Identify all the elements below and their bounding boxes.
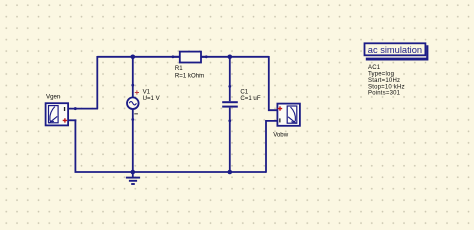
ground <box>126 172 140 184</box>
label R=1 kOhm <box>175 72 204 79</box>
wire V1 upper lead <box>132 57 134 98</box>
wire left-bottom vertical <box>74 119 76 172</box>
label C=1 uF <box>240 95 260 102</box>
label Points=301 <box>368 91 401 97</box>
node junction at C1 bottom <box>228 170 233 175</box>
wire right vertical (to Vobw plus) <box>269 56 278 110</box>
pin dot R1 right <box>205 55 208 58</box>
svg-text:R=1 kOhm: R=1 kOhm <box>175 72 204 79</box>
voltmeter Vgen body <box>46 103 69 125</box>
pin dot R1 left <box>172 55 175 58</box>
label ac simulation <box>368 45 422 55</box>
svg-text:U=1 V: U=1 V <box>143 95 161 102</box>
wire Vgen plus terminal horizontal <box>68 108 98 110</box>
label C1 <box>240 89 248 96</box>
svg-text:R1: R1 <box>175 65 183 72</box>
ac simulation block <box>365 43 429 60</box>
voltmeter Vobw body <box>277 104 300 126</box>
V1 minus mark <box>134 113 138 114</box>
label Start=10Hz <box>368 78 400 84</box>
resistor R1 <box>173 52 206 63</box>
svg-text:Type=log: Type=log <box>368 72 394 78</box>
wire C1 lower lead <box>229 108 231 172</box>
pin dot V1 top <box>131 84 134 87</box>
pin dot Vgen plus wire <box>74 107 77 110</box>
wire Vgen minus terminal horizontal <box>68 119 76 121</box>
svg-text:Points=301: Points=301 <box>368 91 401 97</box>
node junction at V1 top <box>131 55 136 60</box>
voltmeter Vgen plus mark <box>63 118 67 122</box>
svg-text:Start=10Hz: Start=10Hz <box>368 78 400 84</box>
pin dot C1 top <box>228 85 231 88</box>
pin dot C1 bottom <box>228 119 231 122</box>
pin dot V1 bottom <box>131 118 134 121</box>
voltmeter Vgen minus mark <box>64 107 65 111</box>
V1 plus mark <box>135 90 139 94</box>
wire Vobw minus to ground rail <box>266 121 277 173</box>
capacitor C1 <box>222 101 238 107</box>
wire top-left horizontal (node in to R1) <box>97 56 179 58</box>
wire V1 lower lead <box>132 109 134 172</box>
svg-text:Vobw: Vobw <box>273 132 289 139</box>
svg-text:C=1 uF: C=1 uF <box>240 95 260 102</box>
ac voltage source V1 <box>127 97 139 109</box>
svg-text:Stop=10 kHz: Stop=10 kHz <box>368 84 405 90</box>
wire left vertical <box>96 56 98 109</box>
svg-text:Vgen: Vgen <box>46 93 60 100</box>
label AC1 <box>368 65 381 71</box>
label Stop=10 kHz <box>368 84 405 90</box>
wire C1 upper lead <box>229 57 231 101</box>
label U=1 V <box>143 95 161 102</box>
node junction at C1 top <box>228 55 233 60</box>
svg-text:ac simulation: ac simulation <box>368 45 422 55</box>
label Type=log <box>368 72 394 78</box>
wire bottom horizontal (ground rail) <box>75 171 267 173</box>
label Vobw <box>273 132 289 139</box>
node junction at ground <box>131 170 136 175</box>
voltmeter Vobw minus mark <box>279 118 280 122</box>
label R1 <box>175 65 183 72</box>
wire top-right horizontal (R1 to corner) <box>201 56 269 58</box>
label V1 <box>143 89 151 96</box>
svg-text:AC1: AC1 <box>368 65 381 71</box>
voltmeter Vobw plus mark <box>278 106 282 110</box>
label Vgen <box>46 93 60 100</box>
